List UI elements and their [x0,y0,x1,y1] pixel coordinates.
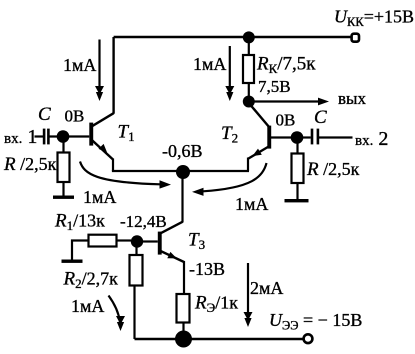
ground R1 [62,260,83,263]
transistor T2 [248,103,271,171]
resistor R2 [135,247,137,255]
svg-text:0В: 0В [276,111,296,130]
wire output [249,100,319,102]
svg-text:R2/2,7к: R2/2,7к [63,269,119,292]
svg-text:UКК=+15В: UКК=+15В [334,7,414,30]
svg-text:вых: вых [338,89,366,108]
wire T2 emitter to node [183,170,249,172]
ground input2 [285,199,309,202]
transistor T1 [89,37,113,171]
node T3 base junction [131,235,143,247]
wire R1 to ground [72,241,89,260]
svg-text:-12,4В: -12,4В [120,212,167,231]
svg-text:0В: 0В [65,107,85,126]
wire T1 emitter to node [112,170,183,172]
transistor T3 [158,222,184,294]
svg-text:R1/13к: R1/13к [54,211,105,234]
node input1 junction [57,130,70,143]
svg-text:UЭЭ = − 15В: UЭЭ = − 15В [269,310,362,333]
current arrow 1mA second [229,46,231,88]
resistor R1 [89,235,117,247]
resistor RE [177,294,190,323]
curved arrow left 1mA [80,162,160,185]
svg-text:1мА: 1мА [63,55,96,75]
svg-text:7,5В: 7,5В [258,77,291,96]
svg-text:1мА: 1мА [235,194,268,214]
wire input1 [35,135,44,137]
resistor R input2 [296,144,298,154]
node input2 junction [291,131,304,144]
svg-text:T1: T1 [118,122,135,145]
svg-text:C: C [314,107,327,128]
capacitor C2 [303,136,311,138]
svg-text:RК/7,5к: RК/7,5к [256,54,316,77]
wire bottom rail [135,338,305,340]
svg-text:T2: T2 [221,123,238,146]
svg-text:-0,6В: -0,6В [162,141,203,161]
svg-text:C: C [38,104,51,125]
ground input1 [53,196,74,199]
wire top rail [114,36,353,38]
wire R1 to node [117,239,132,241]
wire T2 base [271,136,291,138]
svg-text:RЭ/1к: RЭ/1к [194,293,238,316]
wire cap to base node [50,135,90,137]
current arrow 1mA first [98,40,100,89]
svg-text:1мА: 1мА [83,187,116,207]
svg-text:1мА: 1мА [71,296,104,316]
svg-text:вх. 1: вх. 1 [4,126,37,148]
svg-text:-13В: -13В [189,259,225,279]
svg-text:вх. 2: вх. 2 [355,128,388,150]
node top junction [243,31,255,43]
svg-text:1мА: 1мА [193,54,226,74]
resistor R input1 [62,142,64,153]
curved arrow bottom 1mA [109,296,121,323]
svg-text:R /2,5к: R /2,5к [306,159,360,180]
capacitor C1 [43,129,46,145]
svg-text:T3: T3 [188,230,205,253]
svg-text:2мА: 2мА [250,278,283,298]
terminal Uee [304,334,313,343]
wire node to T3 collector [181,178,183,223]
node emitter common [176,165,190,179]
wire input2 [319,136,353,138]
current arrow 2mA [247,263,249,313]
node bottom junction [175,331,192,348]
wire T3 base [143,240,158,242]
node collector T2 junction [243,96,255,108]
svg-text:R /2,5к: R /2,5к [3,154,57,175]
resistor RK [248,43,250,55]
terminal Ukk [352,34,359,42]
curved arrow right 1mA [203,163,267,191]
